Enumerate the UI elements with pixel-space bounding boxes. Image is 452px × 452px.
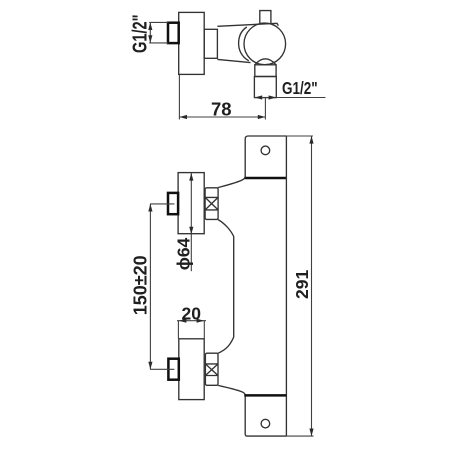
top view: outlet pipe lower section (254, 77, 276, 98)
dimension 78: arrow right (258, 115, 266, 119)
front view: bottom hatch cross (205, 364, 218, 376)
dimension 291: arrow down (309, 429, 313, 437)
dimension 20: left extension line (177, 321, 179, 339)
front view: top valve body (178, 173, 204, 234)
dimension G1/2 right: dimension line under text (254, 97, 325, 99)
front view: bottom mounting tab (245, 396, 286, 437)
dimension 78: left extension line (178, 75, 180, 120)
svg-text:78: 78 (211, 99, 232, 120)
dimension 150±20: top extension line (150, 203, 174, 205)
dimension G1/2 top-left: arrow down (148, 35, 152, 43)
dimension 150±20: bottom extension line (150, 368, 174, 370)
dimension phi64: arrow up (189, 173, 193, 181)
front view: bottom arm lower curve (218, 385, 245, 395)
dimension 20: right extension line (203, 321, 205, 339)
front view: top tab thick bottom edge (244, 177, 286, 180)
dimension 20: arrow right (197, 319, 205, 323)
top view: top pipe stub (260, 11, 271, 24)
front view: bottom valve hatch square (205, 353, 218, 385)
svg-text:G1/2": G1/2" (128, 14, 151, 53)
front view: top arm lower curve and tube left edge (218, 220, 234, 354)
dimension 291: top extension line (286, 135, 313, 137)
dimension G1/2 top-left: dimension line (149, 22, 151, 43)
svg-text:20: 20 (182, 304, 202, 324)
front view: bottom hatch band lines (205, 364, 218, 376)
dimension 78: dimension line (179, 116, 265, 118)
dimension G1/2 right: arrow left (255, 95, 263, 99)
front view: bottom valve cap (thick) (168, 359, 178, 380)
top view: connector block (204, 29, 217, 58)
svg-text:ϕ64: ϕ64 (174, 237, 194, 270)
top view: G1/2 inlet nipple (thick) (168, 23, 179, 43)
dimension phi64: dimension line (190, 173, 192, 271)
svg-text:150±20: 150±20 (131, 255, 151, 315)
top view: cone bottom edge (217, 59, 250, 62)
top view: valve sphere circle (244, 23, 286, 65)
dimension 150±20: arrow up (148, 204, 152, 212)
dimension 291: arrow up (309, 136, 313, 144)
top view: outlet pipe upper section (255, 65, 276, 77)
front view: top mounting hole (261, 146, 270, 155)
front view: bottom valve body (179, 339, 204, 400)
dimension G1/2 top-left: extension line bottom (149, 42, 168, 44)
top view: outlet-sphere intersection arc (255, 59, 276, 65)
top view: cone-sphere crescent arc (239, 27, 249, 61)
front view: bottom tab thick top edge (244, 394, 286, 397)
dimension 20: arrow left (179, 319, 187, 323)
front view: top valve cap (thick) (168, 193, 178, 214)
dimension 150±20: dimension line (149, 204, 151, 369)
dimension G1/2 top-left: arrow up (148, 22, 152, 30)
dimension 150±20: arrow down (148, 362, 152, 370)
dimension 78: right extension line (264, 98, 266, 120)
front view: top hatch cross (205, 197, 218, 210)
front view: top mounting tab (245, 136, 286, 178)
dimension 291: bottom extension line (286, 435, 313, 437)
dimension 78: arrow left (179, 115, 187, 119)
dimension 20: dimension line (177, 320, 206, 322)
top view: mixer body rectangle (179, 12, 205, 74)
svg-text:G1/2": G1/2" (282, 79, 318, 98)
svg-text:291: 291 (292, 270, 312, 299)
top view: cone top edge (217, 23, 278, 26)
dimension G1/2 right: arrow right (269, 95, 277, 99)
dimension 291: dimension line (311, 136, 313, 436)
front view: top valve hatch square (205, 188, 218, 220)
front view: top arm upper curve (218, 177, 245, 188)
front view: top hatch band lines (205, 197, 218, 210)
front view: bottom mounting hole (261, 419, 270, 428)
front view: wall bar right edge (285, 136, 287, 436)
dimension G1/2 top-left: extension line top (149, 21, 168, 23)
dimension phi64: arrow down (189, 227, 193, 235)
